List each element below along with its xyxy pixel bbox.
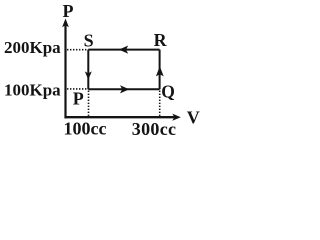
process edge P-Q (bottom) [88, 88, 159, 90]
svg-text:P: P [63, 1, 74, 21]
dotted guide P down to 100cc [88, 91, 90, 116]
dotted guide Q down to 300cc [159, 91, 161, 116]
svg-text:100Kpa: 100Kpa [4, 81, 61, 100]
svg-text:S: S [84, 31, 94, 51]
dotted guide 100Kpa to P [67, 88, 87, 90]
process edge Q-R (right) [159, 50, 161, 90]
process edge S-R (top) [88, 49, 159, 51]
arrow P to Q (right-pointing) [120, 85, 129, 93]
y-axis arrowhead [62, 19, 69, 28]
svg-text:100cc: 100cc [64, 119, 107, 139]
dotted guide 200Kpa to S [67, 49, 88, 51]
V axis (x-axis) [65, 116, 175, 118]
svg-text:V: V [187, 107, 200, 127]
svg-text:200Kpa: 200Kpa [4, 38, 61, 57]
svg-text:300cc: 300cc [132, 119, 176, 139]
arrow Q to R (up-pointing) [156, 66, 164, 76]
svg-text:Q: Q [161, 82, 175, 102]
arrow S to P (down-pointing) [85, 71, 92, 79]
svg-text:P: P [73, 88, 84, 108]
svg-text:R: R [154, 30, 168, 50]
process edge S-P (left) [87, 50, 89, 90]
arrow R to S (left-pointing) [119, 46, 128, 54]
P axis (y-axis) [64, 24, 66, 118]
x-axis arrowhead [172, 114, 181, 121]
